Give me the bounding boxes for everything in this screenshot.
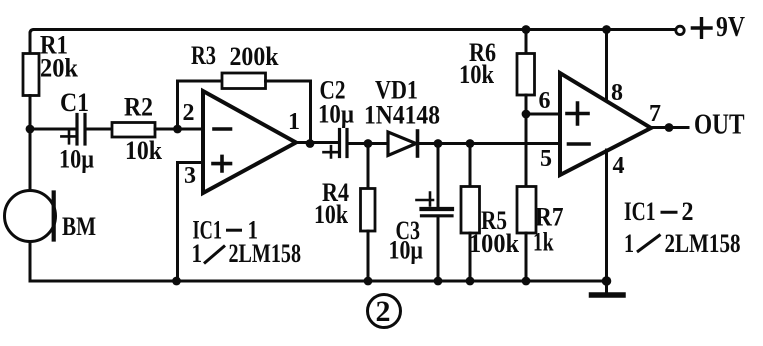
node: C3 bottom xyxy=(434,277,443,286)
op-amp U2 IC1-2 xyxy=(560,73,651,175)
svg-text:IC1: IC1 xyxy=(624,197,656,226)
svg-text:2: 2 xyxy=(183,100,195,126)
svg-text:2LM158: 2LM158 xyxy=(229,239,302,268)
resistor R3 xyxy=(222,73,266,89)
svg-text:100k: 100k xyxy=(469,229,519,258)
wire: pin6 stub xyxy=(526,113,560,116)
svg-text:1: 1 xyxy=(192,239,203,268)
wire: pin4 down xyxy=(605,150,608,281)
plus of +9V label xyxy=(692,19,711,38)
wire: R4 to rail xyxy=(367,231,370,281)
wire: diode to pin5 xyxy=(418,142,561,145)
wire: left rail R1 to mic xyxy=(29,96,32,192)
svg-text:1: 1 xyxy=(624,229,634,258)
wire: +9V top rail xyxy=(30,30,675,34)
wire: pin8 from rail xyxy=(605,30,608,101)
wire: output to OUT xyxy=(651,126,688,129)
svg-text:1k: 1k xyxy=(533,228,554,257)
wire: R5 branch down xyxy=(469,144,472,187)
svg-text:9V: 9V xyxy=(716,12,745,43)
svg-text:10k: 10k xyxy=(314,200,348,229)
svg-text:10k: 10k xyxy=(459,60,494,89)
capacitor C1 xyxy=(75,115,78,145)
svg-text:10µ: 10µ xyxy=(59,145,94,174)
node: op1 output xyxy=(306,139,315,148)
wire: mic to bottom rail xyxy=(29,242,32,282)
microphone BM xyxy=(5,191,56,242)
svg-text:BM: BM xyxy=(62,212,96,241)
svg-text:1: 1 xyxy=(288,109,300,135)
svg-text:5: 5 xyxy=(540,146,552,172)
node: R5 top xyxy=(466,139,475,148)
node: R7 bottom xyxy=(522,277,531,286)
svg-text:2LM158: 2LM158 xyxy=(665,229,741,258)
wire: C3 to rail xyxy=(437,218,440,282)
wire: C2 to diode xyxy=(347,142,388,145)
svg-text:8: 8 xyxy=(611,80,623,106)
wire: C1 to R2 xyxy=(85,128,112,131)
node: out xyxy=(665,123,674,132)
resistor R5 xyxy=(461,187,480,234)
wire: feedback top left xyxy=(178,80,223,83)
svg-text:R2: R2 xyxy=(124,93,153,122)
wire: input branch to C1 xyxy=(30,128,76,131)
resistor R2 xyxy=(112,123,155,138)
svg-text:2: 2 xyxy=(376,295,391,328)
node: R4 bottom xyxy=(364,277,373,286)
resistor R6 xyxy=(517,54,535,96)
wire: R7 to rail xyxy=(525,233,528,281)
wire: R2 to pin2 xyxy=(155,128,203,131)
capacitor C2 xyxy=(338,130,341,157)
svg-text:10µ: 10µ xyxy=(389,236,424,265)
node: pin6 xyxy=(522,110,531,119)
wire: op-amp1 output xyxy=(296,141,338,144)
wire: feedback up from node 2 xyxy=(176,81,179,129)
wire: R6 down through cross to R7 xyxy=(525,95,528,187)
node: rail/R1 input xyxy=(26,125,35,134)
wire: feedback top right xyxy=(266,80,311,83)
svg-text:20k: 20k xyxy=(40,54,78,83)
wire: feedback down to output node xyxy=(309,81,312,144)
wire: bottom ground rail xyxy=(30,280,607,283)
svg-text:C1: C1 xyxy=(60,88,89,117)
node: rail pin8 xyxy=(602,25,611,34)
svg-text:10µ: 10µ xyxy=(318,100,354,129)
resistor R1 xyxy=(23,54,39,96)
figure number 2 circled xyxy=(368,295,401,328)
ground xyxy=(605,281,608,293)
node: pin2 feedback xyxy=(173,125,182,134)
node: pin3 ground xyxy=(172,277,181,286)
svg-text:OUT: OUT xyxy=(694,109,745,141)
resistor R4 xyxy=(361,189,376,232)
wire: C3 branch down xyxy=(437,144,440,208)
svg-text:1N4148: 1N4148 xyxy=(364,101,440,130)
svg-text:4: 4 xyxy=(613,153,625,179)
svg-text:R3: R3 xyxy=(191,41,216,70)
svg-text:6: 6 xyxy=(539,88,551,114)
node: rail R6 xyxy=(522,25,531,34)
svg-text:200k: 200k xyxy=(230,42,279,71)
diode VD1 xyxy=(388,132,416,156)
node: R5 bottom xyxy=(466,277,475,286)
svg-text:2: 2 xyxy=(682,197,694,226)
svg-text:10k: 10k xyxy=(125,136,162,165)
wire: R6 from rail xyxy=(525,30,528,54)
node: C2/diode R4 xyxy=(364,139,373,148)
op-amp U1 IC1-1 xyxy=(203,91,296,193)
node: C3 top xyxy=(434,139,443,148)
resistor R7 xyxy=(517,187,536,234)
wire: R5 to rail xyxy=(469,233,472,281)
wire: R4 branch down xyxy=(367,144,370,189)
svg-text:3: 3 xyxy=(184,163,196,189)
wire: pin3 stub xyxy=(178,163,204,282)
terminal +9V circle xyxy=(676,26,684,34)
capacitor C3 xyxy=(422,207,453,211)
node: ground xyxy=(602,276,612,286)
svg-text:7: 7 xyxy=(649,101,661,127)
wire: left rail upper corner to R1 xyxy=(29,33,32,54)
